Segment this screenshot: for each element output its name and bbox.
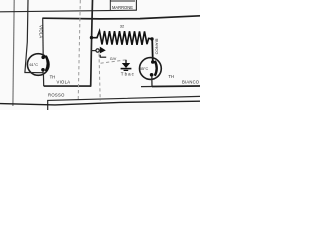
svg-text:TH: TH [168,74,174,79]
wire vertical from top to TH1 node [25,0,28,73]
label box MARRONE [110,0,136,11]
svg-text:Tbac: Tbac [121,72,135,77]
wire left edge vertical (gray) [13,0,14,106]
thermal fuse symbol [96,47,106,58]
wire drop to bottom bus [42,73,44,87]
page edge bottom line [0,101,200,105]
svg-text:BIANCO: BIANCO [155,39,160,55]
svg-text:MARRONE: MARRONE [112,5,133,10]
fold line dashed 2 [99,54,100,101]
TH1 top contact [41,56,45,60]
wire TH1 bottom stub [42,71,44,73]
TH2 top contact [151,60,155,64]
dashed link to earth arrow [101,60,126,63]
TH1 bottom contact [41,68,45,72]
wire TH1 lower node horizontal [24,72,43,74]
svg-text:32: 32 [120,24,125,29]
resistor R zigzag [93,31,152,45]
svg-text:VIOLA: VIOLA [57,80,71,85]
wire TH2 bottom drop [151,76,153,87]
TH2 bottom contact [150,73,154,77]
svg-text:VIOLA: VIOLA [39,25,44,38]
wire ROSSO bottom [48,96,200,110]
wire bottom bus VIOLA [44,85,92,87]
TH2 bimetal strip [155,61,157,76]
thermal switch TH2 circle [140,58,162,80]
svg-text:ROSSO: ROSSO [48,92,65,97]
wire B top horizontal to right edge [43,16,201,19]
svg-text:G/V: G/V [110,57,117,61]
wire riser to TH2 [151,39,154,62]
TH1 bimetal strip [46,56,48,71]
svg-text:85°C: 85°C [140,67,149,71]
fold line dashed 1 [78,0,80,101]
junction dot resistor right [150,37,153,40]
svg-text:BIANCO: BIANCO [182,79,200,84]
svg-text:TH: TH [50,74,56,79]
junction dot resistor left [90,36,93,39]
thermal switch TH1 circle [27,54,49,76]
wire BIANCO to right edge [152,85,200,88]
earth arrow Tbac [121,60,132,71]
wire valve lead [91,50,96,52]
wire A MARRONE horizontal [0,10,137,12]
wire riser center [91,0,93,86]
wire stub left of TH2 [141,86,152,88]
wire VIOLA riser [42,18,45,57]
svg-text:61°C: 61°C [30,63,39,67]
